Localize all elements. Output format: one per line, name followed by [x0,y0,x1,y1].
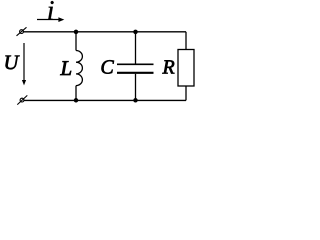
node bottom inductor junction [74,98,79,103]
wire top [24,31,187,33]
current label i [48,1,53,20]
resistor R box [178,50,194,87]
capacitor C plates [117,64,154,73]
wire inductor branch bottom [75,86,77,101]
voltage arrow [22,43,26,85]
terminal top-left [17,27,27,36]
label R [162,60,174,73]
label L [60,61,71,75]
inductor L coil [76,51,82,86]
label C [102,60,114,73]
current arrow [37,17,64,22]
terminal bottom-left [17,95,27,104]
wire inductor branch top [75,32,77,51]
node top inductor junction [74,30,79,35]
wire capacitor branch bottom [135,74,137,101]
wire bottom [24,99,186,101]
wire capacitor branch top [135,32,137,64]
wire resistor branch top [185,32,187,50]
wire resistor branch bottom [185,86,187,100]
voltage label U [5,56,19,70]
node bottom capacitor junction [133,98,138,103]
node top capacitor junction [133,30,138,35]
